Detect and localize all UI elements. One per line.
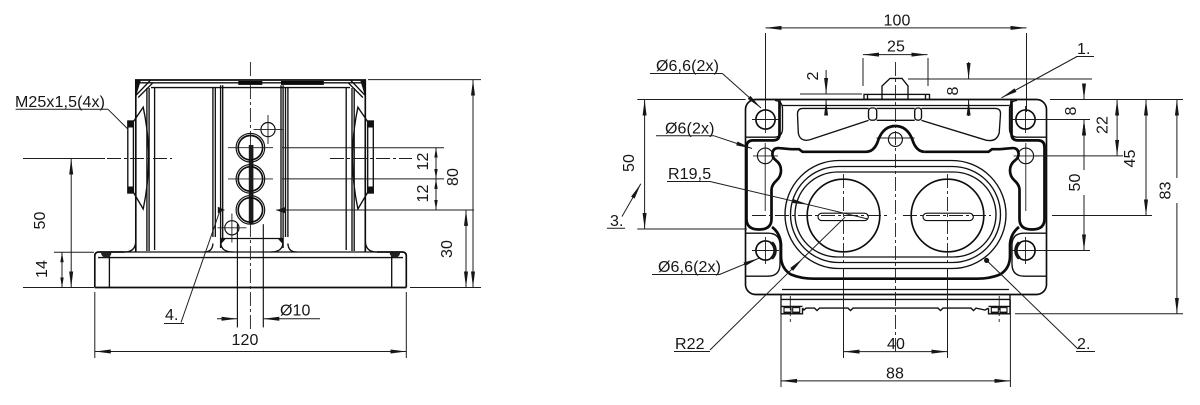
main vertical centerline	[895, 62, 897, 355]
top face second line	[138, 82, 363, 84]
bottom profile with notches	[803, 308, 989, 311]
svg-text:4.: 4.	[165, 307, 179, 324]
svg-text:M25x1,5(4x): M25x1,5(4x)	[15, 94, 105, 111]
slot right	[923, 213, 973, 220]
gasket left keyhole meander	[747, 101, 792, 230]
slot left	[818, 213, 868, 220]
dim 83	[1176, 100, 1178, 314]
svg-text:3.: 3.	[610, 213, 624, 230]
right gland flange	[368, 121, 374, 193]
svg-text:Ø6,6(2x): Ø6,6(2x)	[656, 58, 719, 75]
right ext lines	[1050, 99, 1183, 101]
svg-text:50: 50	[32, 212, 49, 230]
block base fillets	[204, 244, 213, 253]
foot centerlines	[789, 296, 791, 322]
housing outer body	[136, 80, 365, 252]
big circle centerlines	[752, 215, 888, 217]
svg-text:80: 80	[445, 168, 462, 186]
gasket bottom sweep	[772, 227, 1019, 279]
body-base fillets	[125, 241, 136, 253]
svg-text:2: 2	[805, 72, 822, 81]
dim 14	[54, 251, 94, 253]
svg-text:R22: R22	[675, 336, 705, 353]
bottom-right boss outline	[1012, 233, 1046, 276]
left gland flange	[128, 121, 134, 193]
dim 100	[765, 33, 767, 112]
corner holes	[756, 110, 775, 129]
svg-text:45: 45	[1122, 150, 1139, 168]
counterbore crescents	[770, 242, 777, 260]
svg-text:14: 14	[34, 260, 51, 278]
dim 2	[800, 93, 862, 95]
inner wall lines	[146, 88, 148, 251]
svg-text:88: 88	[886, 366, 904, 383]
under-flange body	[780, 295, 782, 300]
dim 80	[472, 80, 474, 288]
tab circle	[888, 132, 902, 146]
svg-text:50: 50	[1067, 174, 1084, 192]
dim 12 b	[435, 179, 437, 210]
left gland bulge	[134, 107, 149, 209]
left block	[154, 88, 156, 250]
dim 25	[862, 58, 864, 86]
stadium B	[791, 167, 1001, 263]
column base fillets	[221, 243, 233, 252]
svg-text:100: 100	[884, 12, 911, 29]
big circle right	[911, 179, 984, 252]
circle crosshairs	[228, 147, 273, 149]
gasket right keyhole meander	[1000, 101, 1045, 230]
svg-text:8: 8	[1063, 107, 1080, 116]
svg-text:12: 12	[415, 185, 432, 203]
right block	[345, 88, 347, 250]
svg-text:50: 50	[621, 154, 638, 172]
flange outline	[746, 100, 1047, 295]
base flange	[95, 252, 125, 288]
hole crosshairs	[752, 106, 1039, 264]
svg-text:12: 12	[415, 153, 432, 171]
stadium A	[785, 161, 1006, 269]
base slot dark arcs	[101, 253, 111, 258]
small circle top	[261, 123, 275, 137]
dim 45	[1145, 100, 1147, 216]
left foot	[781, 299, 803, 313]
horizontal centerline left	[84, 158, 172, 160]
svg-text:2.: 2.	[1077, 336, 1091, 353]
slot band hidden edge	[249, 145, 254, 224]
svg-text:30: 30	[439, 240, 456, 258]
svg-text:Ø6(2x): Ø6(2x)	[665, 121, 715, 138]
dim 50 right	[1083, 120, 1085, 251]
svg-text:1.: 1.	[1077, 41, 1091, 58]
stacked circles	[236, 133, 265, 162]
dim 8 right	[1083, 84, 1085, 100]
top-left chamfer	[136, 80, 151, 95]
ledge behind column	[221, 238, 283, 240]
center column	[220, 85, 222, 248]
dim o10	[217, 318, 237, 320]
dim 12 a	[435, 148, 437, 179]
o10 tangent lines	[236, 224, 238, 327]
inner top line	[151, 87, 350, 89]
big circle left	[807, 179, 880, 252]
horizontal centerline right	[330, 158, 412, 160]
right side extension lines	[368, 79, 481, 81]
dim 30	[465, 210, 467, 288]
right foot	[989, 299, 1011, 313]
bottom-left boss outline	[746, 233, 780, 276]
svg-text:Ø10: Ø10	[280, 303, 311, 320]
gasket arch and top runs	[866, 126, 925, 152]
top terminal plate	[864, 94, 930, 99]
svg-text:120: 120	[232, 332, 259, 349]
stadium C	[795, 172, 996, 257]
dim 120	[94, 292, 96, 358]
left wedge rib	[798, 108, 869, 140]
svg-text:22: 22	[1095, 116, 1112, 134]
pentagon tab	[882, 78, 908, 99]
top-left boss outline	[746, 101, 783, 138]
svg-text:8: 8	[945, 87, 962, 96]
right gland bulge	[353, 107, 368, 209]
terminal bars (black)	[238, 81, 262, 85]
svg-text:R19,5: R19,5	[668, 166, 711, 183]
top-right boss outline	[1010, 101, 1047, 138]
svg-text:25: 25	[887, 38, 905, 55]
middle small circles	[757, 148, 773, 164]
right wedge rib	[922, 108, 1001, 140]
dark corner fills	[136, 80, 141, 97]
vertical centerline	[249, 62, 251, 330]
top-right chamfer	[351, 80, 366, 95]
dim 22	[1116, 100, 1118, 156]
small circle bottom	[225, 221, 239, 235]
dim 50 left	[637, 99, 745, 101]
svg-text:40: 40	[887, 336, 905, 353]
dim 88	[780, 300, 782, 388]
dim 8 top	[908, 78, 1092, 80]
dim 40	[843, 268, 845, 358]
dim 50 left	[23, 158, 105, 160]
inner top edge	[782, 105, 1009, 107]
svg-text:83: 83	[1158, 182, 1175, 200]
inner bottom edge	[782, 289, 1009, 291]
svg-text:Ø6,6(2x): Ø6,6(2x)	[658, 259, 721, 276]
